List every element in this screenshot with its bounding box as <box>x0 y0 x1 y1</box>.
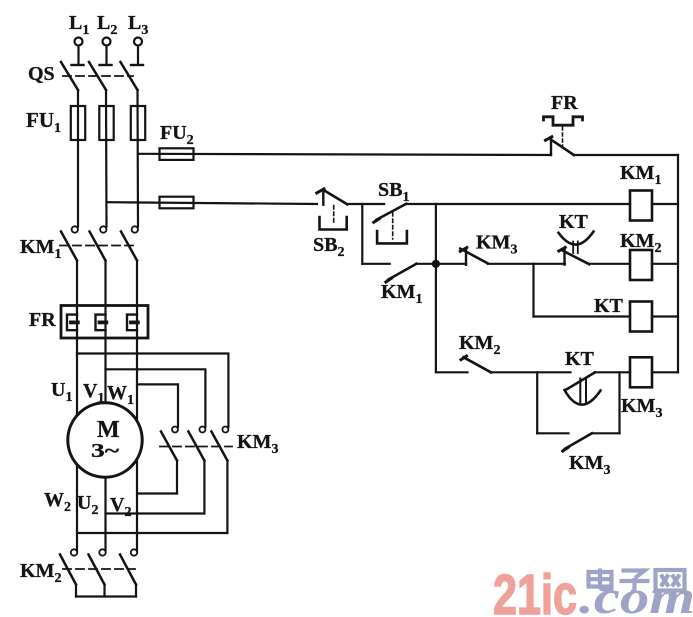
svg-text:3~: 3~ <box>91 440 120 462</box>
watermark zi glyph <box>620 571 650 593</box>
svg-text:W2: W2 <box>44 489 71 515</box>
wire U2 to KM3 pole2 <box>106 512 205 514</box>
svg-text:KM1: KM1 <box>620 162 661 188</box>
wire KM3 pole3 down <box>226 461 228 534</box>
switch QS pole3 top bar <box>131 64 143 66</box>
pushbutton SB1 cap <box>377 231 407 243</box>
terminal circle L1 <box>75 38 83 46</box>
contactor KM1 linkage dashed <box>60 245 136 247</box>
svg-text:FU1: FU1 <box>26 108 61 136</box>
coil KM3 <box>630 357 652 387</box>
watermark wang glyph <box>656 570 685 591</box>
wire phase1 KM1 to motor <box>76 261 78 553</box>
contact KM3 NC bar serif <box>460 248 467 252</box>
fuse FU1 pole1 <box>71 106 85 140</box>
wire SB2 to SB1 <box>347 203 384 205</box>
svg-text:V2: V2 <box>110 494 131 520</box>
wire L1 stem <box>77 46 79 64</box>
contact KT NO delay tick1 <box>579 379 581 405</box>
svg-text:KM2: KM2 <box>620 230 661 256</box>
wire KM3 NC to KT NC <box>488 263 565 265</box>
contactor KM2 main blade pole1 <box>60 555 76 585</box>
wire W1 to KM3 pole1 top <box>137 384 178 426</box>
coil KM2 right stub <box>652 263 678 265</box>
fuse FU1 pole3 <box>131 106 145 140</box>
contactor KM1 main circle pole2 <box>100 226 106 232</box>
svg-text:KM2: KM2 <box>20 560 61 586</box>
wire to KT coil <box>534 315 631 317</box>
relay FR heater pole3 <box>127 315 137 331</box>
contactor KM3 blade pole3 <box>211 432 227 461</box>
contactor KM2 main circle pole2 <box>99 549 105 555</box>
wire latch bottom left <box>537 432 568 434</box>
coil KT right stub <box>652 315 678 317</box>
wire latch bottom right <box>592 432 620 434</box>
pushbutton SB2 bar serif <box>317 189 324 193</box>
wire FR to right rail <box>574 154 679 156</box>
contact KT NO blade <box>567 373 595 390</box>
switch QS pole2 top bar <box>100 64 112 66</box>
contact KT NC blade <box>562 250 589 264</box>
relay FR heater pole2 <box>96 315 106 331</box>
contact KM3 latch blade serif <box>563 447 569 451</box>
svg-text:L1: L1 <box>69 12 89 38</box>
motor M circle <box>68 403 142 477</box>
contact KM2 NO blade serif <box>461 356 467 360</box>
contactor KM1 main circle pole3 <box>132 226 138 232</box>
wire KM2 NO to KT NO <box>491 371 571 373</box>
switch QS pole1 blade <box>61 62 78 90</box>
terminal circle L3 <box>134 38 142 46</box>
svg-text:KM1: KM1 <box>381 281 422 307</box>
contactor KM3 circle pole2 <box>199 427 205 433</box>
wire W2 to KM3 pole3 <box>77 532 227 534</box>
contact KT NO delay tick2 <box>585 379 587 405</box>
watermark dian glyph <box>589 569 614 590</box>
svg-text:L2: L2 <box>97 12 117 38</box>
relay FR heater tab pole3 <box>131 320 138 324</box>
svg-text:KM3: KM3 <box>476 232 517 258</box>
svg-text:KT: KT <box>565 348 595 370</box>
wire L3 stem <box>137 46 139 64</box>
contact KM1 latch wire left <box>362 263 389 265</box>
relay FR contact dashed link <box>562 127 564 146</box>
pushbutton SB1 dashed actuator <box>392 213 394 240</box>
contactor KM2 main circle pole3 <box>131 549 137 555</box>
switch QS pole3 blade <box>121 62 138 90</box>
contact KM1 latch wire right <box>416 263 436 265</box>
switch QS pole2 blade <box>89 62 106 90</box>
contact KM3 latch blade <box>565 433 592 448</box>
wire latch branch down <box>536 372 538 433</box>
contactor KM1 main blade pole2 <box>90 232 106 261</box>
wire control line1 left <box>138 154 551 155</box>
relay FR heater tab pole2 <box>100 320 107 324</box>
wire U1 to KM3 pole3 top <box>77 354 228 427</box>
contactor KM3 circle pole3 <box>222 427 228 433</box>
svg-text:FR: FR <box>551 92 578 114</box>
contactor KM2 main circle pole1 <box>71 549 77 555</box>
svg-text:KM2: KM2 <box>459 332 500 358</box>
relay FR contact bar <box>550 138 552 156</box>
fuse FU1 pole2 <box>99 106 113 140</box>
wire SB1 to KM1 coil <box>406 203 630 205</box>
svg-text:FR: FR <box>29 309 56 331</box>
wire KM2 pole2 stub <box>103 585 105 597</box>
wire KM2 pole1 stub <box>75 585 77 597</box>
wire KT NC to KM2 coil <box>589 263 630 265</box>
contactor KM3 blade pole2 <box>188 432 204 461</box>
wire KT NO to KM3 coil <box>595 371 630 373</box>
svg-text:KM3: KM3 <box>569 452 610 478</box>
wire branch down to KT coil <box>532 264 534 317</box>
contactor KM3 circle pole1 <box>172 427 178 433</box>
coil KM2 <box>630 250 652 280</box>
svg-text:U1: U1 <box>51 379 72 405</box>
contact KT NC bar serif <box>559 247 565 251</box>
wire L2 stem <box>105 46 107 64</box>
wire V1 to KM3 pole2 top <box>106 369 206 427</box>
contactor KM2 main blade pole3 <box>120 555 136 585</box>
svg-text:KT: KT <box>559 211 589 233</box>
coil KM1 <box>630 191 652 221</box>
wire to KM2 NO contact <box>436 371 468 373</box>
svg-text:SB1: SB1 <box>378 179 409 205</box>
svg-text:KM3: KM3 <box>621 395 662 421</box>
relay FR contact blade <box>551 140 574 155</box>
contact KM2 NO blade <box>463 357 491 372</box>
wire phase2 KM1 to motor <box>104 261 106 553</box>
coil KM3 right stub <box>652 371 678 373</box>
wire phase2 QS to KM1 <box>105 90 108 227</box>
pushbutton SB2 bar <box>322 193 324 205</box>
contact KT NC delay tick1 <box>572 242 574 254</box>
svg-text:L3: L3 <box>128 12 148 38</box>
wire right rail <box>677 155 679 372</box>
coil KT <box>630 302 652 332</box>
contact KM1 latch blade serif <box>386 278 391 282</box>
contactor KM1 main blade pole1 <box>61 232 77 261</box>
svg-text:KM3: KM3 <box>237 431 278 457</box>
svg-text:.com: .com <box>579 571 693 617</box>
svg-text:FU2: FU2 <box>160 122 194 148</box>
relay FR heater pole1 <box>67 315 77 331</box>
svg-text:21ic: 21ic <box>493 563 577 617</box>
contact KT NC delay tick2 <box>577 242 579 254</box>
contactor KM3 blade pole1 <box>161 432 177 461</box>
node junction dot <box>432 260 440 268</box>
wire phase3 KM1 to motor <box>136 261 138 553</box>
fuse FU2 <box>160 148 194 160</box>
relay FR contact heater symbol top <box>544 117 583 125</box>
relay FR heater tab pole1 <box>71 320 78 324</box>
wire control line2 left <box>107 202 318 204</box>
svg-text:SB2: SB2 <box>313 234 344 260</box>
contact KM3 NC bar <box>465 248 467 264</box>
svg-text:KT: KT <box>594 295 624 317</box>
svg-text:KM1: KM1 <box>20 236 61 262</box>
contact KT NC bar <box>563 248 565 265</box>
wire KM3 pole1 down <box>176 461 178 494</box>
wire KM2 pole3 stub <box>135 585 137 597</box>
coil KM1 right stub <box>652 203 678 205</box>
contact KM3 NC blade <box>460 249 488 264</box>
terminal circle L2 <box>103 38 111 46</box>
wire main vertical branch <box>435 204 437 372</box>
svg-text:QS: QS <box>28 63 55 85</box>
wire V2 to KM3 pole1 <box>137 492 177 494</box>
pushbutton SB2 blade <box>324 190 348 204</box>
wire KM2 star bus <box>76 595 136 597</box>
contactor KM1 main blade pole3 <box>121 232 137 261</box>
contactor KM1 main circle pole1 <box>72 226 78 232</box>
pushbutton SB1 blade <box>376 204 406 220</box>
svg-text:U2: U2 <box>77 492 98 518</box>
contact KT NO delay arc <box>565 390 601 405</box>
contact KT NC delay arc <box>559 232 594 245</box>
wire phase1 QS to KM1 <box>77 90 79 227</box>
pushbutton SB2 cap <box>320 217 347 230</box>
contactor KM3 linkage dashed <box>160 446 232 448</box>
pushbutton SB1 blade serif <box>374 219 380 223</box>
contactor KM2 main blade pole2 <box>89 555 105 585</box>
wire branch down to KM1 latch <box>361 204 363 264</box>
contact KM1 latch blade <box>388 264 416 280</box>
contactor KM2 linkage dashed <box>63 568 135 570</box>
pushbutton SB2 dashed actuator <box>333 206 335 224</box>
wire latch branch up <box>618 372 620 433</box>
switch QS pole1 top bar <box>72 64 84 66</box>
wire phase3 QS to KM1 <box>136 90 139 227</box>
relay FR box <box>61 306 148 339</box>
switch QS linkage dashed <box>63 75 133 77</box>
fuse FU3 on line2 <box>160 197 194 209</box>
wire KM3 pole2 down <box>203 461 205 514</box>
relay FR contact bar serif <box>546 137 552 140</box>
svg-text:V1: V1 <box>83 380 104 406</box>
wire dot to KM3 NC <box>436 263 466 265</box>
